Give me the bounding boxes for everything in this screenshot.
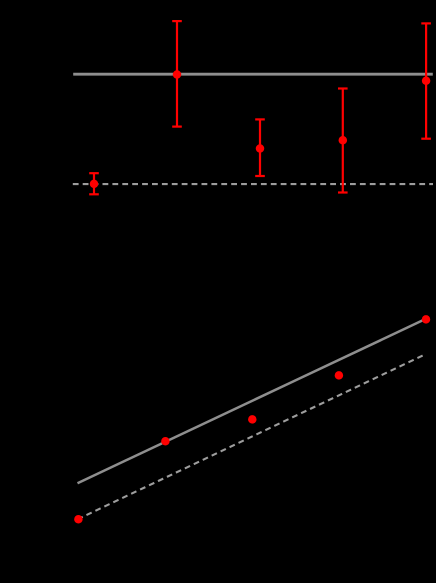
errorbar 4 marker bbox=[339, 136, 348, 145]
errorbar 4 whisker bbox=[338, 89, 348, 193]
errorbar 2 whisker bbox=[172, 21, 182, 127]
scatter point 5 bbox=[422, 315, 431, 324]
errorbar 3 whisker bbox=[255, 119, 265, 176]
scatter point 1 bbox=[74, 515, 83, 524]
top plot: dashed horizontal reference line bbox=[73, 183, 433, 185]
scatter point 2 bbox=[161, 437, 170, 446]
scatter point 4 bbox=[335, 371, 344, 380]
bottom plot: dashed reference line bbox=[78, 354, 427, 519]
errorbar 2 marker bbox=[173, 70, 182, 79]
bottom plot: solid fit line bbox=[78, 319, 427, 483]
scatter point 3 bbox=[248, 415, 256, 424]
errorbar 5 marker bbox=[422, 76, 431, 85]
errorbar 3 marker bbox=[256, 144, 265, 153]
errorbar 1 whisker bbox=[89, 173, 99, 194]
errorbar 1 marker bbox=[90, 180, 99, 189]
errorbar 5 whisker bbox=[421, 23, 431, 138]
top plot: solid horizontal reference line bbox=[73, 73, 433, 76]
